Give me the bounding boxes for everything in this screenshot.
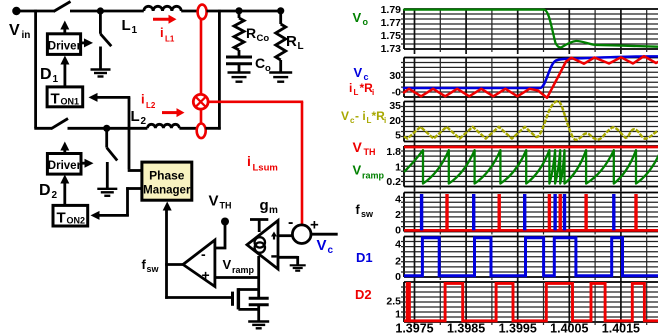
svg-text:in: in (22, 30, 31, 41)
svg-text:L: L (298, 41, 304, 52)
svg-text:L: L (354, 88, 359, 97)
node SW1 (97, 7, 104, 14)
wire driver1 output up-arrow (63, 25, 66, 34)
svg-text:V: V (223, 257, 232, 272)
svg-text:0: 0 (395, 225, 401, 237)
svg-text:D1: D1 (356, 250, 373, 265)
wire L2 to output rail (206, 127, 221, 130)
wire driver2 output right-arrow (81, 162, 86, 165)
plot vgrid (415, 146, 621, 192)
capacitor C1 (ramp cap) (249, 297, 269, 300)
svg-text:ramp: ramp (232, 265, 255, 275)
svg-text:L2: L2 (146, 101, 156, 110)
ground (ramp) (248, 320, 269, 322)
block TON1 (47, 87, 83, 107)
plot frame (404, 282, 658, 322)
plot vgrid (415, 102, 621, 147)
red wire (200, 109, 203, 124)
svg-text:0: 0 (395, 271, 401, 283)
svg-text:V: V (341, 109, 349, 123)
ground (Co) (228, 71, 251, 73)
svg-text:20: 20 (389, 115, 401, 127)
node RCo top (235, 7, 242, 14)
current summer (red circle-X) (193, 94, 208, 109)
svg-text:1.75: 1.75 (381, 30, 402, 42)
svg-text:V: V (9, 22, 20, 39)
svg-text:2: 2 (395, 256, 401, 268)
svg-text:L: L (122, 17, 131, 34)
svg-text:Co: Co (257, 33, 270, 44)
plot frame (404, 193, 658, 232)
svg-text:- i: - i (355, 109, 366, 123)
svg-text:1.3995: 1.3995 (499, 322, 537, 334)
wire (179, 127, 197, 130)
svg-text:i: i (384, 116, 386, 125)
wire Vramp node (257, 256, 260, 298)
svg-text:+: + (310, 217, 319, 234)
wire (257, 305, 260, 322)
gm current source circles (255, 237, 265, 247)
ground (gm minus input) (290, 264, 306, 266)
trace Vc (blue, plot 2) (404, 56, 658, 88)
wire (70, 10, 144, 13)
trace Vo (green, plot 1) (404, 10, 658, 48)
svg-text:-: - (288, 214, 293, 231)
plot frame (404, 146, 658, 187)
plot hgrid (401, 107, 658, 137)
wire fsw output to mosfet gate (165, 265, 168, 299)
block phase manager (142, 162, 192, 200)
node RL top (277, 7, 284, 14)
plot hgrid (401, 242, 658, 272)
ground (RL) (269, 71, 292, 73)
wire (106, 162, 109, 189)
current probe iL2 (red oval) (197, 124, 206, 139)
svg-text:0.2: 0.2 (386, 176, 401, 188)
plot frame (404, 102, 658, 142)
ground (phase 2) (97, 188, 117, 190)
plot frame (404, 237, 658, 278)
node Vin (12, 7, 20, 15)
wire phase-manager to TON2 (126, 187, 129, 216)
label iL1 arrow (red) (153, 18, 170, 21)
wire output rail (207, 10, 284, 13)
plot vgrid (415, 282, 621, 327)
svg-text:5: 5 (395, 130, 401, 142)
svg-text:1.4015: 1.4015 (602, 322, 640, 334)
svg-text:sw: sw (147, 264, 160, 274)
svg-text:D: D (39, 182, 51, 199)
svg-text:L1: L1 (165, 35, 175, 44)
wire (16, 10, 54, 13)
label iL2 arrow (red) (162, 111, 178, 114)
svg-text:-0: -0 (392, 87, 401, 99)
svg-text:35: 35 (389, 100, 401, 112)
svg-text:V: V (353, 139, 363, 155)
svg-text:o: o (363, 17, 369, 27)
svg-text:V: V (353, 163, 362, 178)
svg-text:2: 2 (141, 116, 147, 127)
inductor L2 (147, 124, 179, 128)
svg-text:ON2: ON2 (67, 216, 86, 226)
plot frame (404, 58, 658, 98)
plot vgrid (415, 58, 621, 103)
svg-text:Driver: Driver (48, 40, 82, 52)
svg-text:ramp: ramp (362, 171, 385, 181)
wire driver2 output up-arrow (63, 146, 66, 154)
capacitor Co (226, 56, 252, 59)
node SW2 (103, 125, 110, 132)
current probe iL1 (red oval) (198, 5, 207, 20)
summing node (Vc) (292, 225, 311, 244)
svg-text:g: g (260, 197, 269, 214)
svg-text:C: C (255, 55, 265, 71)
svg-text:sw: sw (361, 209, 374, 219)
svg-text:1: 1 (395, 162, 401, 174)
wire (68, 127, 148, 130)
svg-text:4: 4 (395, 239, 401, 251)
plot hgrid (401, 287, 658, 317)
svg-text:c: c (328, 245, 334, 256)
svg-text:i: i (160, 25, 164, 40)
red wire probe chain (200, 19, 203, 96)
plot hgrid (401, 14, 658, 44)
svg-text:T: T (51, 91, 60, 108)
svg-text:-: - (201, 246, 206, 262)
block TON2 (53, 205, 88, 226)
wire (181, 10, 198, 13)
trace D1 (blue, plot 6) (404, 238, 658, 276)
svg-text:i: i (372, 88, 374, 97)
svg-text:T: T (57, 210, 66, 227)
wire (99, 47, 102, 70)
wire driver1 output right-arrow (81, 42, 86, 45)
wire phase-manager to TON1 (128, 97, 131, 169)
svg-text:Driver: Driver (48, 160, 82, 172)
svg-text:1.79: 1.79 (381, 4, 402, 16)
wire (34, 127, 52, 130)
svg-text:1: 1 (395, 309, 401, 321)
plot frame (404, 9, 658, 49)
svg-text:V: V (209, 193, 219, 210)
svg-text:R: R (246, 25, 256, 41)
plot hgrid (401, 62, 658, 92)
svg-text:TH: TH (364, 147, 376, 157)
comparator U3 (fsw) (183, 240, 215, 287)
plot vgrid (415, 237, 621, 283)
wire TON2 to driver2 arrow (63, 181, 66, 205)
switch S1 (phase 1 high-side) (54, 2, 71, 12)
svg-text:+: + (202, 267, 210, 283)
plot hgrid (401, 197, 658, 226)
wire fsw to phase manager arrow (165, 208, 168, 265)
op-amp U2 (gm amplifier) (247, 221, 278, 270)
svg-text:1.3975: 1.3975 (395, 322, 433, 334)
wire TON1 to driver1 arrow (64, 62, 67, 87)
switch S2b (phase 2 low-side) (105, 128, 108, 147)
svg-text:Phase: Phase (149, 169, 185, 183)
svg-text:i: i (247, 153, 251, 169)
trace Vramp (green, plot 4) (404, 150, 658, 183)
wire gm minus input to ground (278, 256, 298, 259)
svg-text:V: V (353, 10, 362, 25)
svg-text:D2: D2 (355, 287, 372, 302)
inductor L1 (144, 6, 181, 11)
switch S2 (phase 2 high-side) (51, 119, 68, 129)
svg-text:1.73: 1.73 (381, 43, 402, 55)
svg-text:V: V (317, 237, 327, 254)
node VTH dot (221, 218, 229, 226)
trace D2 (red, plot 7) (404, 283, 658, 320)
svg-text:TH: TH (220, 201, 232, 211)
svg-text:1.77: 1.77 (381, 17, 402, 29)
wire comparator plus input (Vramp) (215, 276, 260, 279)
resistor RL (279, 11, 282, 24)
svg-text:R: R (286, 33, 297, 50)
svg-text:i: i (349, 81, 352, 95)
svg-text:L: L (131, 108, 140, 125)
wire fsw output (165, 263, 184, 266)
svg-text:Lsum: Lsum (253, 163, 278, 174)
svg-text:1.4005: 1.4005 (550, 322, 588, 334)
svg-text:1: 1 (53, 74, 59, 85)
trace fsw pulses D1-phase (blue, plot 5) (422, 194, 614, 230)
wire VTH to comparator (215, 222, 225, 249)
driver U1 (phase 1) (47, 34, 80, 55)
transistor M1 (ramp reset mosfet) (231, 292, 234, 306)
trace Vc-iL*Ri (olive, plot 3) (404, 101, 658, 140)
svg-text:ON1: ON1 (61, 97, 80, 107)
wire Vin bus (34, 10, 37, 129)
trace fsw baseline (red, plot 5) (404, 229, 658, 232)
svg-text:30: 30 (389, 70, 401, 82)
svg-text:2: 2 (52, 190, 58, 201)
svg-text:1.3985: 1.3985 (447, 322, 485, 334)
svg-text:i: i (141, 92, 145, 107)
plot vgrid (415, 9, 621, 54)
trace fsw pulses D2-phase (red, plot 5) (447, 194, 636, 230)
plot vgrid (415, 193, 621, 237)
resistor RCo (238, 11, 241, 18)
svg-text:2.5: 2.5 (386, 296, 401, 308)
trace iL*Ri (red, plot 2) (404, 56, 658, 98)
gm supply T-bar (258, 220, 261, 233)
svg-text:4: 4 (395, 194, 401, 206)
svg-text:D: D (40, 66, 52, 83)
wire gm plus input (278, 234, 293, 237)
switch S1b (phase 1 low-side) (99, 11, 102, 34)
svg-text:2: 2 (395, 209, 401, 221)
red wire iLsum to summing node (208, 101, 303, 104)
svg-text:Manager: Manager (143, 185, 191, 197)
svg-text:m: m (269, 205, 278, 216)
svg-text:V: V (354, 65, 363, 80)
driver U2 (phase 2) (47, 154, 81, 175)
wire Vc output (311, 233, 338, 236)
ground (phase 1) (91, 68, 111, 70)
svg-text:1.8: 1.8 (386, 146, 401, 158)
plot hgrid (401, 151, 658, 181)
svg-text:1: 1 (132, 25, 138, 36)
trace VTH (red, plot 4) (404, 146, 658, 149)
